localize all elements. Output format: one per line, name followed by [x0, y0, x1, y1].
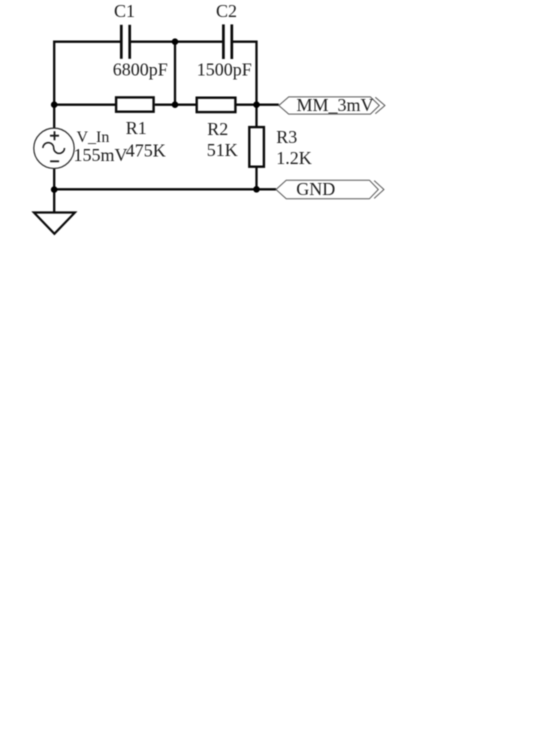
node junction D (mid wire) — [172, 101, 179, 108]
wire — [174, 42, 176, 105]
wire — [155, 104, 196, 106]
svg-text:R3: R3 — [276, 127, 297, 147]
off-page connector GND — [276, 180, 384, 199]
svg-text:R2: R2 — [207, 119, 228, 139]
node junction A (left mid) — [51, 101, 58, 108]
svg-text:MM_3mV: MM_3mV — [297, 95, 374, 115]
svg-text:R1: R1 — [126, 118, 147, 138]
svg-text:GND: GND — [296, 179, 335, 199]
ground — [34, 213, 75, 234]
capacitor C1 — [121, 25, 129, 59]
node junction C (top wire) — [172, 38, 179, 45]
node junction E (right mid) — [253, 101, 260, 108]
resistor R1 — [116, 97, 154, 111]
resistor R3 — [249, 127, 264, 167]
resistor R2 — [197, 98, 236, 112]
svg-text:C2: C2 — [216, 1, 237, 21]
node junction B (left bottom) — [51, 186, 58, 193]
node junction F (right bottom) — [253, 186, 260, 193]
wire — [233, 42, 257, 128]
wire — [53, 189, 55, 212]
wire — [54, 169, 276, 190]
svg-text:155mV: 155mV — [74, 145, 128, 165]
svg-text:6800pF: 6800pF — [113, 60, 168, 80]
voltage source V1 — [34, 128, 74, 168]
capacitor C2 — [223, 24, 231, 59]
wire — [255, 167, 257, 190]
svg-text:51K: 51K — [207, 140, 238, 160]
svg-text:V_In: V_In — [77, 129, 110, 146]
wire — [237, 104, 279, 106]
wire — [131, 41, 223, 43]
svg-text:C1: C1 — [114, 1, 135, 21]
off-page connector MM_3mV — [279, 97, 385, 114]
svg-text:1.2K: 1.2K — [276, 148, 312, 168]
wire — [54, 104, 115, 106]
wire — [54, 42, 120, 129]
svg-text:1500pF: 1500pF — [197, 60, 252, 80]
svg-text:475K: 475K — [126, 140, 166, 160]
